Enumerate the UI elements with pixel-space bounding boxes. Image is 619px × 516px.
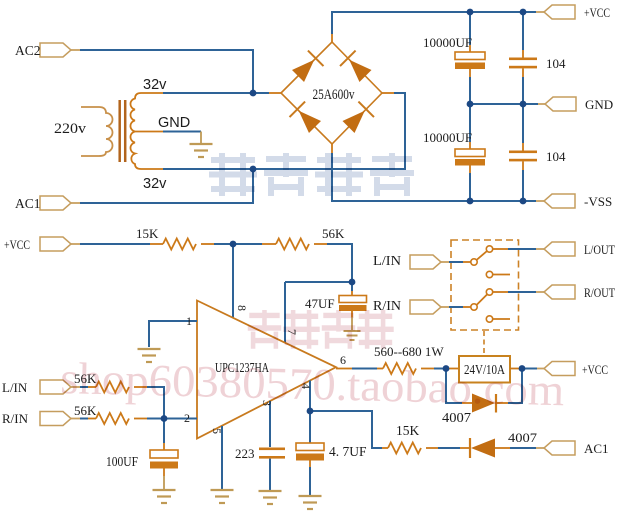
svg-text:4. 7UF: 4. 7UF: [329, 444, 367, 459]
svg-text:32v: 32v: [143, 77, 167, 93]
svg-text:223: 223: [235, 446, 255, 461]
svg-text:AC1: AC1: [584, 441, 609, 456]
svg-text:R/IN: R/IN: [373, 298, 401, 313]
svg-text:15K: 15K: [396, 423, 420, 438]
svg-text:25A600v: 25A600v: [313, 87, 355, 103]
svg-text:32v: 32v: [143, 176, 167, 192]
svg-text:47UF: 47UF: [305, 296, 335, 311]
svg-text:1: 1: [186, 314, 192, 328]
svg-text:2: 2: [184, 411, 190, 425]
svg-text:+VCC: +VCC: [4, 237, 30, 252]
svg-text:+VCC: +VCC: [582, 362, 608, 377]
svg-text:104: 104: [546, 56, 566, 71]
svg-text:R/OUT: R/OUT: [584, 285, 615, 300]
svg-text:+VCC: +VCC: [584, 5, 610, 20]
svg-text:AC2: AC2: [15, 43, 41, 58]
svg-text:4007: 4007: [508, 430, 538, 445]
svg-text:220v: 220v: [54, 121, 87, 137]
svg-text:56K: 56K: [322, 226, 345, 241]
svg-text:8: 8: [235, 305, 249, 311]
svg-text:R/IN: R/IN: [2, 411, 29, 426]
svg-text:L/OUT: L/OUT: [584, 242, 615, 257]
svg-text:L/IN: L/IN: [373, 253, 401, 268]
svg-text:-VSS: -VSS: [584, 194, 612, 209]
svg-text:10000UF: 10000UF: [423, 130, 472, 145]
svg-text:104: 104: [546, 149, 566, 164]
svg-text:GND: GND: [158, 115, 190, 131]
svg-text:GND: GND: [585, 97, 613, 112]
svg-text:100UF: 100UF: [106, 454, 138, 469]
svg-text:L/IN: L/IN: [2, 380, 28, 395]
svg-text:5: 5: [210, 428, 224, 434]
svg-text:56K: 56K: [74, 403, 97, 418]
svg-text:10000UF: 10000UF: [423, 35, 472, 50]
svg-text:15K: 15K: [136, 226, 159, 241]
svg-text:AC1: AC1: [15, 196, 41, 211]
